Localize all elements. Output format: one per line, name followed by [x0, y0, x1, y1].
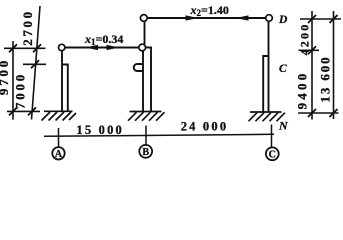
middle column upper shaft: [144, 21, 146, 44]
corbel on middle column: [134, 64, 143, 71]
left top extension bar: [4, 47, 46, 49]
hinge circle right column top: [266, 15, 273, 22]
bottom axis line: [44, 134, 274, 136]
right inner dimension line (4200/9400): [311, 11, 313, 120]
right bottom extension bar: [298, 112, 339, 114]
svg-text:13 600: 13 600: [318, 55, 333, 102]
svg-text:C: C: [279, 63, 287, 75]
axis tick C: [271, 125, 273, 148]
right outer dimension line (13600): [333, 11, 335, 119]
left middle extension bar: [23, 63, 46, 65]
arrowhead x1 left (pointing left): [85, 45, 98, 50]
svg-text:9700: 9700: [0, 58, 11, 95]
tick marks right: [308, 15, 338, 117]
left bottom extension bar: [7, 110, 40, 112]
svg-text:x2=1.40: x2=1.40: [190, 3, 229, 18]
ground support right: hatches: [249, 113, 286, 122]
arrowhead x2 right (pointing left): [236, 15, 249, 20]
ground support middle: hatches: [128, 112, 165, 121]
axis bubble C: [266, 147, 279, 160]
ground support middle: ground line: [130, 111, 162, 113]
ground support left: ground line: [44, 110, 73, 112]
svg-text:A: A: [55, 149, 63, 160]
axis bubble B: [139, 145, 152, 158]
left column upper shaft: [61, 52, 63, 112]
svg-text:7000: 7000: [13, 72, 28, 109]
left column lower step (cap + inner line): [62, 65, 68, 112]
arrowhead x1 right (pointing right): [107, 45, 120, 50]
middle column lower step (cap + right line): [146, 48, 151, 112]
svg-text:D: D: [278, 14, 288, 26]
hinge circle left column top: [59, 44, 65, 50]
svg-text:B: B: [142, 147, 149, 158]
axis tick A: [58, 128, 60, 147]
left outer dimension line (9700): [12, 41, 14, 120]
link bar x1 (between left and middle column tops): [65, 47, 139, 49]
right column lower step (cap + inner line): [263, 56, 268, 112]
hinge circle middle column top: [140, 15, 147, 22]
left inner dimension line (2700/7000): [32, 6, 41, 120]
link bar x2 (top, between middle and right column tops): [147, 17, 266, 19]
svg-text:24 000: 24 000: [181, 120, 229, 134]
svg-text:9400: 9400: [295, 71, 310, 110]
ground support right: ground line: [250, 111, 282, 113]
ground support left: hatches: [42, 112, 77, 121]
right top extension bar: [300, 18, 341, 20]
svg-text:C: C: [269, 149, 276, 160]
right middle extension bar: [299, 49, 320, 51]
hinge circle middle column at x1 link: [139, 44, 146, 51]
svg-text:2700: 2700: [20, 9, 35, 45]
svg-text:4200: 4200: [298, 23, 312, 56]
axis tick B: [145, 126, 147, 146]
arrowhead x2 left (pointing right): [186, 15, 199, 20]
svg-text:15 000: 15 000: [76, 123, 124, 137]
svg-text:N: N: [278, 118, 289, 132]
svg-text:x1=0.34: x1=0.34: [84, 32, 123, 47]
middle column lower shaft left line: [142, 51, 144, 112]
axis bubble A: [52, 147, 64, 159]
tick marks left: [9, 44, 41, 115]
right column upper shaft: [268, 21, 270, 112]
